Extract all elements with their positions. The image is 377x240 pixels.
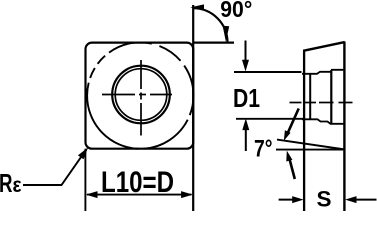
svg-text:S: S [317, 187, 332, 211]
hole inner circle (bore) [115, 69, 167, 121]
D1 lower extension line [236, 118, 304, 120]
L10 dimension line with arrows [87, 194, 192, 196]
horizontal centerline of hole [102, 94, 172, 96]
svg-text:D1: D1 [233, 83, 260, 113]
S dimension left arrow [279, 199, 295, 201]
right edge extended line (90deg extension above + L10 extension below), x=193 [192, 5, 194, 211]
S dimension right arrow [353, 199, 377, 201]
side view top edge [303, 42, 345, 51]
D1 down arrow [245, 41, 247, 65]
inscribed circle (dashed phantom) [87, 42, 193, 148]
bore wall vertical 2 [330, 71, 332, 125]
countersink top silhouette line [302, 70, 344, 74]
Repsilon leader line with arrow to corner radius [23, 153, 84, 185]
90 degree arc with arrowheads [193, 8, 227, 42]
top edge extension to the right (90deg horizontal leg) [193, 41, 234, 43]
svg-text:ε: ε [13, 174, 22, 197]
vertical centerline of hole [140, 60, 142, 136]
hole centerline (dashed) [290, 102, 353, 104]
D1 upper extension line [234, 71, 302, 73]
7deg upper angle arrow [288, 109, 299, 134]
side view right edge + S extension line [343, 42, 345, 212]
countersink bottom silhouette line [302, 119, 344, 124]
insert bottom face at 7deg (with left extension) [277, 140, 345, 150]
svg-text:7°: 7° [254, 136, 273, 162]
insert body outline (rounded square) [86, 43, 194, 149]
horizontal reference line for 7deg angle [276, 149, 345, 151]
svg-text:90°: 90° [220, 0, 252, 22]
D1 up arrow [245, 126, 247, 151]
side view left face (flank) + S extension line [303, 50, 305, 211]
svg-text:R: R [0, 168, 13, 198]
left edge extension down to dimension line [84, 149, 86, 211]
hole outer circle (chamfer edge) [112, 66, 170, 124]
7deg lower angle arrow [290, 159, 295, 179]
bore wall vertical 1 [309, 74, 311, 120]
